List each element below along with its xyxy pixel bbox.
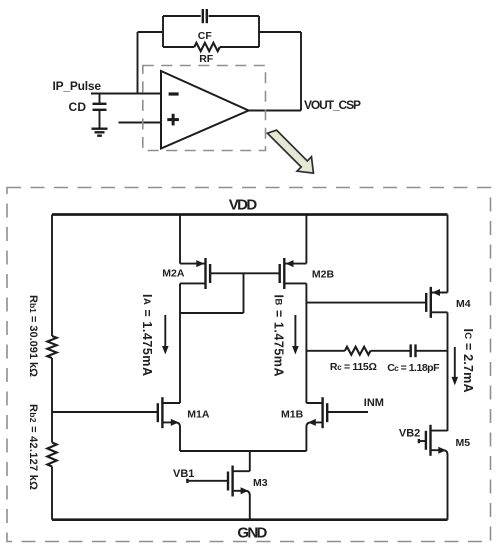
svg-text:CF: CF	[198, 30, 213, 42]
svg-text:INM: INM	[364, 397, 384, 409]
svg-text:VOUT_CSP: VOUT_CSP	[304, 98, 361, 112]
svg-text:Rb2 = 42.127 kΩ: Rb2 = 42.127 kΩ	[27, 404, 39, 490]
svg-text:M4: M4	[456, 298, 471, 310]
svg-text:Cc = 1.18pF: Cc = 1.18pF	[387, 362, 440, 374]
svg-text:M2B: M2B	[312, 269, 335, 281]
svg-text:CD: CD	[69, 100, 87, 114]
svg-text:M1A: M1A	[187, 409, 210, 421]
svg-text:IB = 1.475mA: IB = 1.475mA	[272, 295, 286, 377]
svg-text:IP_Pulse: IP_Pulse	[53, 79, 102, 93]
svg-text:Rc = 115Ω: Rc = 115Ω	[330, 361, 377, 373]
svg-text:IA = 1.475mA: IA = 1.475mA	[140, 294, 154, 376]
svg-text:VB2: VB2	[399, 428, 420, 440]
svg-text:VDD: VDD	[229, 197, 258, 214]
svg-text:IC = 2.7mA: IC = 2.7mA	[461, 329, 475, 393]
svg-text:M5: M5	[456, 437, 471, 449]
svg-text:RF: RF	[199, 53, 214, 65]
svg-text:M3: M3	[253, 477, 268, 489]
svg-text:M1B: M1B	[281, 409, 304, 421]
svg-text:M2A: M2A	[162, 268, 185, 280]
svg-text:GND: GND	[237, 525, 267, 542]
svg-text:Rb1 = 30.091 kΩ: Rb1 = 30.091 kΩ	[27, 295, 39, 377]
svg-text:VB1: VB1	[173, 468, 194, 480]
